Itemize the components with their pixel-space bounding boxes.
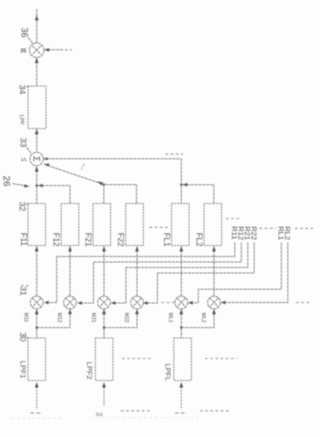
wire RL2 to ML2 [221, 243, 288, 305]
ellipsis top [166, 153, 184, 155]
ellipsis right of RL2 [295, 227, 313, 229]
label 31 [19, 286, 29, 296]
svg-text:33: 33 [18, 138, 28, 148]
filter FL1 [172, 204, 190, 246]
ellipsis bottom 2 [200, 410, 231, 412]
svg-text:R22: R22 [249, 226, 258, 240]
input wire 3 [175, 382, 185, 413]
wire ML1 to FL1 [179, 246, 183, 296]
svg-text:F11: F11 [19, 233, 28, 247]
lowpass LPFL [174, 338, 192, 381]
lowpass LPF1 [28, 338, 46, 381]
wire M12 to F12 [68, 246, 72, 296]
lowpass LPF2 [95, 338, 113, 381]
svg-text:M21: M21 [90, 313, 96, 323]
filter FL2 [204, 204, 222, 246]
svg-text:Σ: Σ [31, 156, 41, 162]
svg-text:M12: M12 [56, 313, 62, 323]
wire FL2 column branch [183, 185, 214, 204]
filter F11 [28, 204, 46, 246]
svg-text:(ω): (ω) [96, 412, 103, 417]
svg-text:M11: M11 [23, 313, 29, 323]
ellipsis between LPF2 and LPFL [122, 358, 152, 360]
svg-text:35: 35 [20, 48, 26, 54]
wire M22 to F22 [135, 246, 139, 296]
svg-text:F22: F22 [116, 233, 125, 247]
svg-text:ML2: ML2 [200, 313, 206, 323]
junction node B [103, 183, 105, 185]
label 34 [18, 85, 33, 95]
label 36 [20, 28, 34, 45]
wire LPF1 to M11 [35, 309, 39, 338]
diagonal wire into summer [44, 163, 104, 185]
svg-text:F12: F12 [52, 233, 61, 247]
svg-text:36: 36 [20, 28, 30, 38]
wire junction to M22 [104, 309, 139, 328]
svg-text:32: 32 [18, 202, 28, 212]
svg-text:FL2: FL2 [194, 233, 203, 247]
wire F12 column branch [38, 186, 70, 204]
multiplier M21 [98, 296, 111, 309]
summer U33 [30, 152, 43, 165]
wire summer to F11 column [35, 166, 39, 203]
wire M21 to F21 [102, 246, 106, 296]
ellipsis between F22 and FL1 [150, 226, 169, 228]
wire F21 column riser [103, 185, 105, 204]
junction node C [180, 183, 187, 187]
wire R11 to M11 [44, 243, 235, 305]
ellipsis between R22 and RL1 [260, 227, 277, 229]
wire ML2 to FL2 [212, 246, 216, 296]
LPF filter U34 [28, 86, 46, 129]
junction node A [36, 184, 43, 188]
filter F22 [126, 204, 144, 246]
input wire 1 [31, 382, 41, 413]
wire junction to ML2 [181, 309, 216, 328]
mixer U36 [29, 43, 44, 58]
wire FL1 column to summer, long horizontal [44, 157, 182, 203]
leader tick on diagonal [81, 164, 84, 170]
svg-text:FL1: FL1 [162, 233, 171, 247]
ellipsis right of FL2 [226, 218, 240, 220]
svg-text:RL2: RL2 [283, 226, 292, 240]
label 33 [18, 138, 31, 153]
ellipsis right of ML2 wire [296, 302, 311, 304]
wire R21 to M21 [111, 243, 248, 305]
svg-text:F21: F21 [83, 233, 92, 247]
svg-text:26: 26 [1, 176, 12, 187]
svg-text:LPF1: LPF1 [19, 361, 28, 379]
scan artifact line [12, 417, 200, 420]
multiplier M11 [30, 296, 43, 309]
ellipsis right of LPFL [205, 358, 237, 360]
input wire 2 [96, 382, 106, 416]
svg-text:31: 31 [19, 286, 29, 296]
label 30 [18, 332, 30, 342]
filter F12 [61, 204, 79, 246]
ellipsis bottom 1 [121, 410, 151, 412]
wire LPF2 to M21 [102, 309, 106, 338]
multiplier M12 [64, 296, 77, 309]
wire junction to M12 [37, 309, 72, 328]
multiplier M22 [131, 296, 144, 309]
label 26 [1, 176, 30, 188]
mixer side input wire [44, 48, 72, 52]
label 32 [18, 202, 31, 212]
wire F22 column branch [105, 185, 137, 204]
svg-text:LPF: LPF [18, 115, 24, 126]
filter F21 [93, 204, 111, 246]
wire sigma to LPF34 [35, 129, 39, 153]
wire LPF34 to mixer [35, 58, 39, 86]
wire LPFL to ML1 [179, 309, 183, 338]
ellipsis between M22 and ML1 [162, 302, 176, 304]
svg-text:LPFL: LPFL [164, 364, 173, 382]
wire R12 to M12 [77, 243, 241, 305]
wire M11 to F11 [35, 246, 39, 296]
wire R22 to M22 [143, 243, 254, 305]
wire RL1 to ML1 [188, 243, 281, 305]
multiplier ML2 [208, 296, 221, 309]
output wire at top [35, 9, 39, 43]
svg-text:1/L: 1/L [21, 157, 28, 163]
svg-text:34: 34 [18, 85, 28, 95]
svg-text:ML1: ML1 [167, 313, 173, 323]
multiplier ML1 [175, 296, 188, 309]
svg-text:M22: M22 [123, 313, 129, 323]
svg-text:LPF2: LPF2 [85, 362, 94, 380]
